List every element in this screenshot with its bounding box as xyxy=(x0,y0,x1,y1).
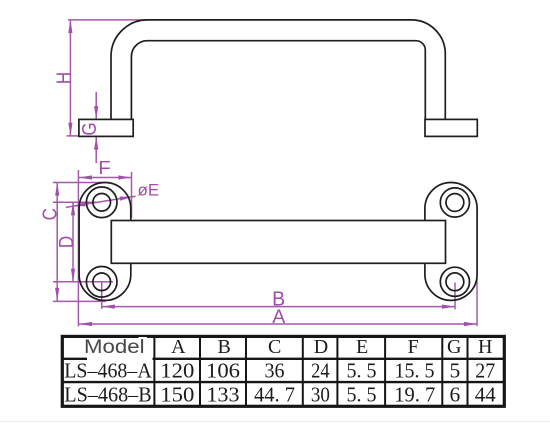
svg-text:G: G xyxy=(447,336,461,358)
svg-text:H: H xyxy=(478,336,492,358)
svg-text:C: C xyxy=(38,208,61,220)
svg-text:LS–468–B: LS–468–B xyxy=(64,383,152,407)
svg-text:A: A xyxy=(272,306,285,328)
svg-text:150: 150 xyxy=(160,383,194,407)
svg-text:5. 5: 5. 5 xyxy=(347,383,377,407)
svg-text:F: F xyxy=(408,336,419,358)
svg-text:5. 5: 5. 5 xyxy=(347,359,377,383)
svg-text:30: 30 xyxy=(311,383,330,407)
svg-text:6: 6 xyxy=(450,383,461,407)
svg-text:LS–468–A: LS–468–A xyxy=(64,359,152,383)
svg-text:F: F xyxy=(98,158,111,179)
svg-text:44. 7: 44. 7 xyxy=(254,383,295,407)
svg-text:G: G xyxy=(77,122,100,135)
svg-text:133: 133 xyxy=(207,383,240,407)
svg-text:5: 5 xyxy=(450,359,461,383)
svg-text:44: 44 xyxy=(475,383,496,407)
svg-text:19. 7: 19. 7 xyxy=(394,383,435,407)
svg-text:øE: øE xyxy=(138,180,160,199)
svg-text:B: B xyxy=(218,336,231,358)
svg-text:E: E xyxy=(356,336,368,358)
svg-text:A: A xyxy=(171,336,186,358)
svg-text:D: D xyxy=(54,236,77,248)
svg-text:H: H xyxy=(52,72,75,84)
svg-text:120: 120 xyxy=(160,359,194,383)
svg-text:24: 24 xyxy=(311,359,330,383)
svg-text:27: 27 xyxy=(475,359,495,383)
svg-text:C: C xyxy=(268,336,281,358)
svg-text:D: D xyxy=(314,336,328,358)
svg-text:36: 36 xyxy=(265,359,285,383)
svg-text:106: 106 xyxy=(206,359,240,383)
svg-text:15. 5: 15. 5 xyxy=(395,359,435,383)
svg-text:Model: Model xyxy=(84,337,145,358)
